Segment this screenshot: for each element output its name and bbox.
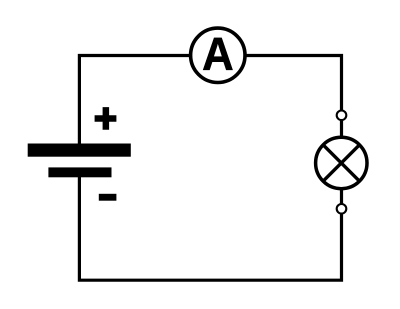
battery positive plate	[28, 144, 131, 157]
ammeter A1	[191, 28, 245, 82]
plus sign	[95, 107, 117, 130]
lamp terminal (top)	[337, 111, 347, 121]
battery negative plate	[48, 167, 111, 177]
minus sign	[99, 194, 117, 201]
wire: circuit loop (left side split for battery gap)	[79, 56, 341, 281]
lamp cross	[323, 145, 359, 181]
lamp terminal (bottom)	[337, 204, 347, 214]
ammeter label A	[203, 38, 232, 70]
lamp L1	[316, 137, 367, 188]
